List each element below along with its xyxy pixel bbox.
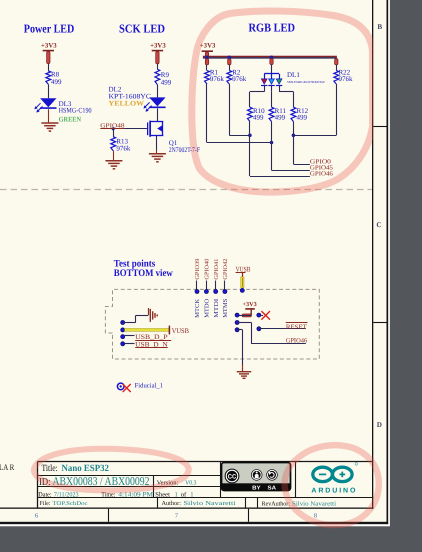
svg-text:GPIO42: GPIO42 bbox=[223, 258, 229, 279]
svg-text:499: 499 bbox=[161, 79, 172, 87]
svg-text:GPIO41: GPIO41 bbox=[214, 258, 220, 279]
svg-text:499: 499 bbox=[297, 113, 308, 121]
svg-text:YELLOW: YELLOW bbox=[109, 99, 145, 107]
svg-text:GPIO39: GPIO39 bbox=[195, 258, 201, 279]
svg-text:HSMG-C190: HSMG-C190 bbox=[59, 107, 92, 115]
svg-text:SMLP34RGB2W3RKJHGF: SMLP34RGB2W3RKJHGF bbox=[287, 80, 325, 84]
svg-text:+3V3: +3V3 bbox=[41, 42, 57, 49]
svg-text:ARDUINO: ARDUINO bbox=[311, 488, 357, 495]
svg-text:976k: 976k bbox=[232, 75, 247, 83]
svg-text:7/11/2023: 7/11/2023 bbox=[54, 491, 79, 498]
svg-text:RGB LED: RGB LED bbox=[249, 21, 296, 35]
svg-text:MTMS: MTMS bbox=[223, 299, 229, 318]
svg-text:Nano ESP32: Nano ESP32 bbox=[62, 464, 110, 474]
svg-text:SA: SA bbox=[268, 486, 277, 492]
svg-text:1: 1 bbox=[190, 491, 193, 498]
svg-text:D: D bbox=[377, 421, 382, 429]
svg-text:976k: 976k bbox=[210, 75, 225, 83]
svg-text:976k: 976k bbox=[116, 144, 130, 152]
svg-text:TOP.SchDoc: TOP.SchDoc bbox=[53, 500, 88, 507]
svg-text:B: B bbox=[377, 23, 382, 31]
svg-text:of: of bbox=[181, 491, 187, 498]
svg-text:V0.3: V0.3 bbox=[185, 480, 196, 487]
svg-text:976k: 976k bbox=[339, 75, 354, 83]
svg-text:+3V3: +3V3 bbox=[150, 42, 166, 49]
svg-text:MTCK: MTCK bbox=[195, 298, 201, 318]
svg-text:USB_D_P: USB_D_P bbox=[135, 334, 168, 341]
svg-text:C: C bbox=[376, 221, 381, 229]
svg-text:CC: CC bbox=[228, 473, 237, 480]
svg-text:Power LED: Power LED bbox=[24, 21, 75, 35]
svg-text:Sheet: Sheet bbox=[155, 491, 170, 498]
svg-text:MTDO: MTDO bbox=[205, 298, 211, 318]
svg-text:Silvio Navaretti: Silvio Navaretti bbox=[184, 500, 236, 507]
svg-text:+3V3: +3V3 bbox=[243, 301, 257, 308]
svg-text:Title:: Title: bbox=[42, 464, 58, 474]
svg-text:BOTTOM view: BOTTOM view bbox=[114, 268, 174, 279]
svg-text:MTDI: MTDI bbox=[214, 299, 220, 318]
svg-text:File:: File: bbox=[40, 500, 51, 507]
svg-text:BY: BY bbox=[252, 486, 261, 492]
svg-text:499: 499 bbox=[275, 113, 286, 121]
svg-text:Silvio Navaretti: Silvio Navaretti bbox=[292, 500, 336, 507]
svg-text:GPIO46: GPIO46 bbox=[286, 338, 308, 345]
svg-text:VUSB: VUSB bbox=[172, 327, 190, 335]
svg-text:Date:: Date: bbox=[38, 491, 51, 498]
svg-text:Author:: Author: bbox=[162, 500, 182, 507]
svg-text:GPIO46: GPIO46 bbox=[310, 170, 333, 177]
svg-text:GPIO40: GPIO40 bbox=[205, 258, 211, 279]
svg-text:SCK LED: SCK LED bbox=[119, 21, 165, 35]
svg-text:DL1: DL1 bbox=[287, 71, 300, 79]
svg-text:LA R: LA R bbox=[0, 462, 15, 472]
svg-text:Fiducial_1: Fiducial_1 bbox=[135, 383, 164, 390]
svg-text:1: 1 bbox=[175, 491, 178, 498]
svg-text:RESET: RESET bbox=[286, 324, 307, 331]
svg-text:6: 6 bbox=[35, 513, 38, 520]
svg-text:GREEN: GREEN bbox=[59, 115, 82, 123]
svg-text:499: 499 bbox=[51, 78, 62, 86]
svg-text:499: 499 bbox=[253, 113, 264, 121]
